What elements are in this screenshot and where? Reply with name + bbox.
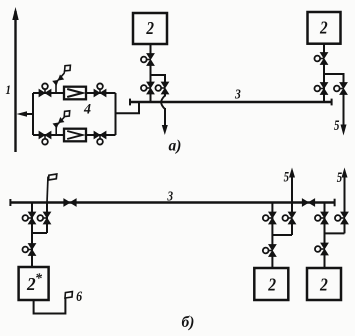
- wire: into box: [324, 255, 326, 269]
- wire: impulse tail from box to flag 6: [34, 298, 66, 314]
- valve lower-left (circle below): [39, 132, 51, 145]
- regulator 4 (lower): [64, 129, 86, 142]
- valve lower-right (circle below): [94, 132, 106, 145]
- vent flag pole (bottom left): [47, 174, 57, 203]
- svg-text:а): а): [169, 138, 182, 155]
- box 2* (bottom left): [19, 267, 49, 300]
- valve under box 2: [141, 54, 154, 66]
- wire: distribution line 3 (bottom): [10, 201, 334, 203]
- svg-text:4: 4: [83, 102, 91, 118]
- svg-text:6: 6: [76, 289, 82, 305]
- valve bypass right (bottom-left): [37, 212, 50, 224]
- svg-text:*: *: [35, 272, 43, 287]
- svg-text:2: 2: [146, 18, 155, 38]
- wire: stem from box 2: [150, 44, 152, 54]
- wire: loop outlet step to line 3: [116, 102, 140, 113]
- svg-text:б): б): [182, 314, 195, 331]
- valve under right box: [314, 53, 327, 65]
- gate valve on line 3 (left): [64, 199, 76, 206]
- purge vent with valve and flag (lower branch): [53, 111, 69, 135]
- wire: outlet arrow up (right): [344, 174, 346, 212]
- wire: loop lower branch: [33, 134, 116, 136]
- wire: loop upper branch: [33, 92, 116, 94]
- valve bypass left: [141, 82, 154, 94]
- tick: left end of line 3: [129, 99, 131, 106]
- tick: right end: [334, 199, 336, 207]
- svg-text:3: 3: [167, 189, 174, 204]
- box 2 (top middle consumer): [133, 13, 167, 44]
- valve on outlet line (right): [335, 212, 348, 224]
- valve on outlet line (middle): [282, 212, 295, 224]
- wire: main vertical from line 3 (middle): [271, 203, 273, 246]
- wire: outlet arrow up (middle): [291, 174, 293, 212]
- box 2 (top right consumer): [308, 12, 341, 44]
- wire: main vertical from line 3 (right): [324, 203, 326, 245]
- box 2 (bottom right): [307, 268, 341, 300]
- wire: stem from box: [323, 44, 325, 53]
- valve main (right assembly): [314, 83, 327, 95]
- valve main (right): [315, 212, 328, 224]
- hook curve at junction: [161, 96, 165, 110]
- valve above box (middle): [263, 245, 276, 257]
- valve upper-left (circle above): [39, 83, 51, 96]
- regulator 4 (upper): [64, 87, 86, 100]
- wire: bypass top bar: [151, 75, 166, 83]
- wire: outlet line to join: [291, 224, 293, 236]
- wire: down to branch: [323, 64, 325, 102]
- wire: into box: [271, 256, 273, 268]
- svg-text:1: 1: [6, 83, 11, 97]
- wire: branch over to outlet line: [324, 74, 344, 83]
- wire: distribution line 3 (top): [130, 101, 332, 103]
- svg-text:2: 2: [319, 275, 328, 295]
- valve upper-right (circle above): [94, 83, 106, 96]
- valve above box 2*: [22, 244, 35, 256]
- wire: loop right vertical: [115, 93, 117, 135]
- wire: bypass left to line 3: [150, 94, 152, 103]
- valve bypass left (bottom-left): [22, 212, 35, 224]
- wire: main gas line 1 (vertical, left): [14, 11, 16, 152]
- wire: outlet arrow down right: [343, 94, 345, 127]
- valve bypass right: [155, 82, 168, 94]
- wire: join bar: [272, 234, 292, 236]
- valve above box (right): [315, 243, 328, 255]
- wire: outlet line to join: [344, 224, 346, 234]
- flag 6: [65, 292, 72, 298]
- svg-text:2: 2: [319, 18, 328, 38]
- svg-text:5: 5: [284, 170, 290, 186]
- arrow head of line 1 (up): [12, 7, 18, 20]
- wire: down to meter valve: [31, 233, 33, 267]
- box 2 (bottom middle): [254, 268, 288, 300]
- svg-text:2: 2: [267, 275, 276, 295]
- wire: bypass right vertical: [46, 203, 48, 234]
- svg-text:5: 5: [334, 118, 340, 134]
- wire: arrow from loop into main line: [21, 113, 33, 115]
- purge vent with valve and flag (upper branch): [53, 65, 70, 93]
- svg-text:3: 3: [234, 86, 241, 101]
- wire: join bar: [325, 232, 345, 234]
- wire: outlet arrow down (consumer): [164, 108, 166, 129]
- wire: bypass bottom bar: [32, 232, 47, 234]
- tick: left end: [9, 199, 11, 206]
- wire: loop left vertical: [32, 93, 34, 135]
- valve outlet (right assembly): [334, 83, 347, 95]
- valve main (middle): [263, 212, 276, 224]
- wire: down to bypass split: [150, 65, 152, 84]
- wire: bypass right to line 3 with hook: [164, 94, 166, 97]
- wire: bypass left vertical (bottom-left assembly): [31, 203, 33, 234]
- gate valve on line 3 (right): [302, 199, 314, 206]
- tick: right end of line 3: [331, 99, 333, 106]
- svg-text:5: 5: [337, 170, 343, 186]
